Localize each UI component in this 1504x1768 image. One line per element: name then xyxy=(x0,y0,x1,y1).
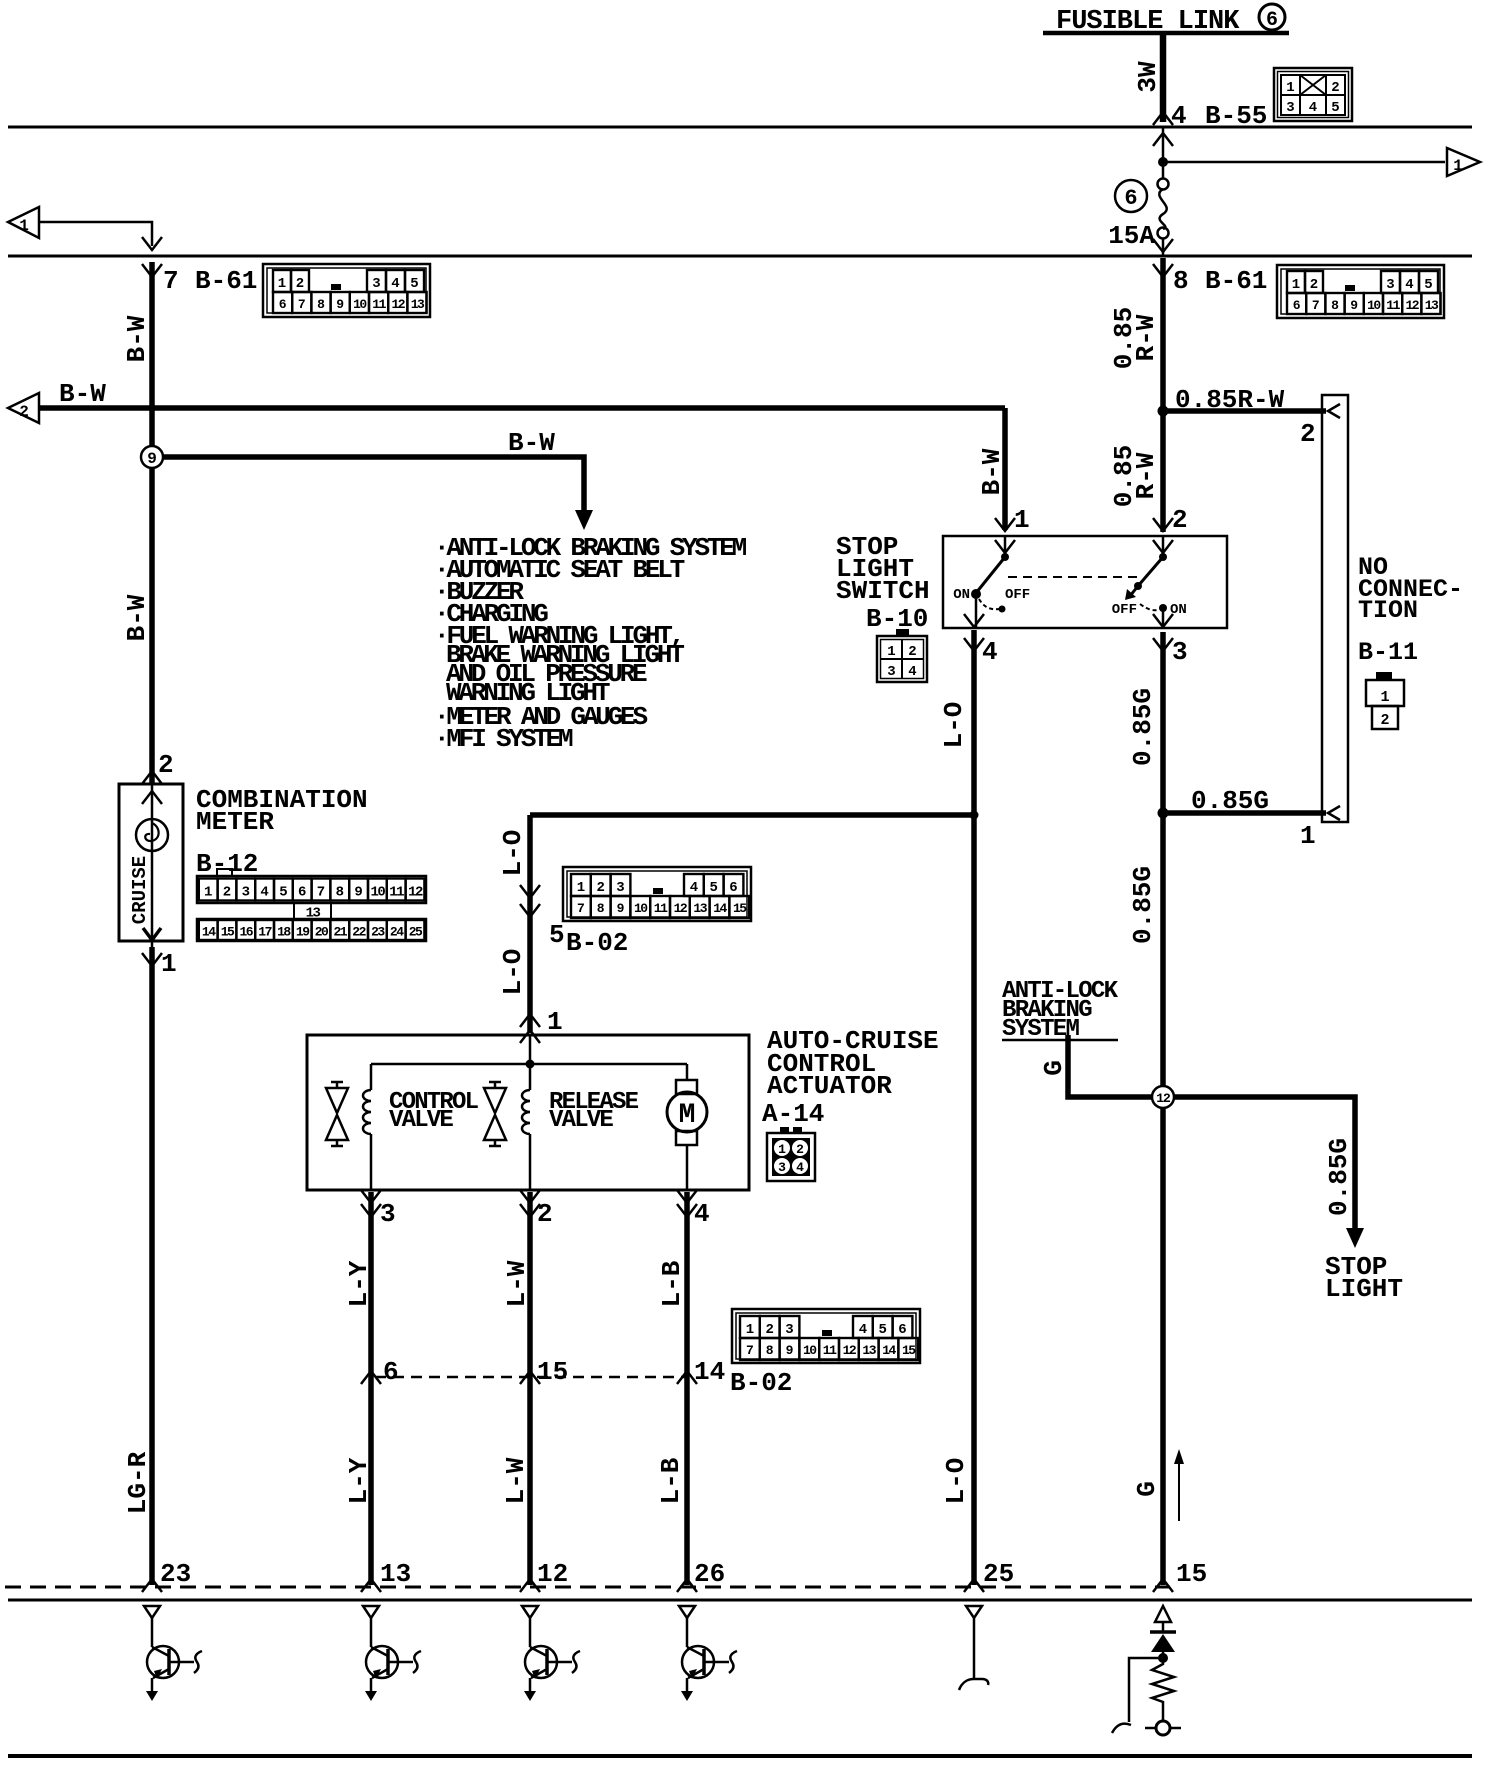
svg-text:A-14: A-14 xyxy=(762,1099,824,1129)
svg-text:14: 14 xyxy=(882,1343,896,1358)
svg-text:5: 5 xyxy=(410,276,418,292)
svg-text:2: 2 xyxy=(19,403,29,421)
svg-text:21: 21 xyxy=(333,925,347,940)
svg-text:·MFI SYSTEM: ·MFI SYSTEM xyxy=(434,724,573,754)
svg-text:8: 8 xyxy=(317,297,325,312)
svg-text:15: 15 xyxy=(902,1343,916,1358)
svg-text:7: 7 xyxy=(317,885,325,901)
svg-text:L-O: L-O xyxy=(941,1458,971,1505)
svg-text:4: 4 xyxy=(982,637,998,667)
svg-text:3: 3 xyxy=(1386,277,1394,293)
svg-text:B-W: B-W xyxy=(59,379,106,409)
svg-text:15: 15 xyxy=(1176,1559,1207,1589)
svg-text:15A: 15A xyxy=(1108,221,1155,251)
svg-text:3: 3 xyxy=(785,1322,793,1338)
svg-text:B-W: B-W xyxy=(122,594,152,641)
svg-text:2: 2 xyxy=(1300,419,1316,449)
svg-text:G: G xyxy=(1039,1060,1069,1076)
svg-text:CRUISE: CRUISE xyxy=(129,856,151,924)
svg-text:26: 26 xyxy=(694,1559,725,1589)
svg-text:20: 20 xyxy=(315,925,329,940)
svg-text:15: 15 xyxy=(733,901,747,916)
svg-text:4: 4 xyxy=(391,276,399,292)
svg-text:2: 2 xyxy=(1172,505,1188,535)
svg-text:1: 1 xyxy=(161,949,177,979)
svg-text:B-61: B-61 xyxy=(1205,266,1267,296)
svg-text:1: 1 xyxy=(1453,157,1463,175)
svg-text:11: 11 xyxy=(389,885,404,901)
svg-text:13: 13 xyxy=(693,901,707,916)
svg-text:12: 12 xyxy=(1405,298,1419,313)
svg-text:6: 6 xyxy=(898,1322,906,1338)
svg-text:3W: 3W xyxy=(1133,61,1163,93)
svg-text:L-O: L-O xyxy=(498,949,528,996)
svg-text:B-W: B-W xyxy=(977,448,1007,495)
svg-text:METER: METER xyxy=(196,807,274,837)
svg-text:6: 6 xyxy=(383,1357,399,1387)
svg-text:23: 23 xyxy=(160,1559,191,1589)
svg-text:1: 1 xyxy=(746,1322,754,1338)
svg-text:2: 2 xyxy=(1331,80,1339,96)
svg-text:0.85G: 0.85G xyxy=(1128,688,1158,766)
svg-text:3: 3 xyxy=(242,885,250,901)
svg-text:1: 1 xyxy=(577,880,585,896)
svg-text:TION: TION xyxy=(1358,596,1418,625)
svg-text:12: 12 xyxy=(843,1343,857,1358)
svg-text:G: G xyxy=(1132,1481,1162,1497)
svg-text:R-W: R-W xyxy=(1131,452,1161,499)
svg-text:15: 15 xyxy=(537,1357,568,1387)
svg-text:4: 4 xyxy=(1405,277,1413,293)
svg-text:0.85G: 0.85G xyxy=(1128,866,1158,944)
svg-text:8: 8 xyxy=(597,901,605,916)
svg-text:1: 1 xyxy=(19,217,29,235)
svg-text:1: 1 xyxy=(204,885,212,901)
svg-text:L-W: L-W xyxy=(501,1457,531,1504)
svg-text:2: 2 xyxy=(537,1199,553,1229)
svg-text:L-Y: L-Y xyxy=(344,1260,374,1307)
svg-text:15: 15 xyxy=(221,925,235,940)
svg-text:4: 4 xyxy=(908,664,916,680)
svg-text:11: 11 xyxy=(372,297,386,312)
svg-text:14: 14 xyxy=(202,925,216,940)
svg-text:7: 7 xyxy=(298,297,306,312)
svg-text:13: 13 xyxy=(1425,298,1439,313)
svg-text:LG-R: LG-R xyxy=(123,1451,153,1514)
svg-text:B-W: B-W xyxy=(508,428,555,458)
svg-text:0.85G: 0.85G xyxy=(1324,1138,1354,1216)
svg-text:12: 12 xyxy=(391,297,405,312)
svg-text:10: 10 xyxy=(634,901,648,916)
svg-text:5: 5 xyxy=(709,880,717,896)
svg-text:1: 1 xyxy=(1380,689,1389,706)
svg-text:B-W: B-W xyxy=(122,315,152,362)
svg-text:2: 2 xyxy=(1310,277,1318,293)
svg-text:10: 10 xyxy=(353,297,367,312)
svg-text:1: 1 xyxy=(278,276,286,292)
svg-text:1: 1 xyxy=(778,1142,786,1157)
svg-text:5: 5 xyxy=(279,885,287,901)
svg-text:8: 8 xyxy=(766,1343,774,1358)
svg-text:2: 2 xyxy=(596,880,604,896)
svg-text:22: 22 xyxy=(352,925,366,940)
svg-text:L-B: L-B xyxy=(656,1457,686,1504)
svg-text:1: 1 xyxy=(1014,505,1030,535)
svg-text:11: 11 xyxy=(654,901,668,916)
svg-text:B-11: B-11 xyxy=(1358,638,1418,667)
svg-text:0.85G: 0.85G xyxy=(1191,786,1269,816)
svg-text:B-12: B-12 xyxy=(196,849,258,879)
svg-text:12: 12 xyxy=(674,901,688,916)
svg-text:7: 7 xyxy=(746,1343,754,1358)
svg-text:10: 10 xyxy=(1367,298,1381,313)
svg-text:3: 3 xyxy=(778,1160,786,1175)
svg-text:L-Y: L-Y xyxy=(344,1457,374,1504)
svg-text:13: 13 xyxy=(380,1559,411,1589)
svg-text:3: 3 xyxy=(887,664,895,680)
svg-text:2: 2 xyxy=(765,1322,773,1338)
svg-text:B-61: B-61 xyxy=(195,266,257,296)
svg-text:2: 2 xyxy=(796,1142,804,1157)
svg-text:6: 6 xyxy=(1293,298,1301,313)
svg-text:L-B: L-B xyxy=(657,1260,687,1307)
svg-text:5: 5 xyxy=(1424,277,1432,293)
svg-text:6: 6 xyxy=(279,297,287,312)
svg-text:4: 4 xyxy=(260,885,268,901)
svg-text:7: 7 xyxy=(1312,298,1320,313)
svg-text:B-02: B-02 xyxy=(730,1368,792,1398)
svg-text:4: 4 xyxy=(859,1322,867,1338)
svg-text:1: 1 xyxy=(887,644,895,660)
svg-text:11: 11 xyxy=(1386,298,1400,313)
svg-text:L-W: L-W xyxy=(502,1260,532,1307)
svg-text:24: 24 xyxy=(390,925,404,940)
svg-text:6: 6 xyxy=(298,885,306,901)
svg-text:12: 12 xyxy=(537,1559,568,1589)
svg-text:5: 5 xyxy=(1331,100,1339,116)
svg-text:11: 11 xyxy=(823,1343,837,1358)
svg-text:7: 7 xyxy=(577,901,585,916)
svg-text:OFF: OFF xyxy=(1005,587,1030,603)
svg-text:6: 6 xyxy=(1124,186,1137,211)
svg-text:10: 10 xyxy=(803,1343,817,1358)
svg-text:4: 4 xyxy=(1309,100,1317,116)
svg-text:8: 8 xyxy=(1173,266,1189,296)
svg-text:23: 23 xyxy=(371,925,385,940)
svg-text:2: 2 xyxy=(1380,712,1389,729)
svg-text:7: 7 xyxy=(163,266,179,296)
svg-text:5: 5 xyxy=(549,920,565,950)
svg-text:18: 18 xyxy=(277,925,291,940)
svg-text:SWITCH: SWITCH xyxy=(836,576,930,606)
svg-text:4: 4 xyxy=(690,880,698,896)
svg-text:9: 9 xyxy=(147,450,157,468)
svg-text:R-W: R-W xyxy=(1131,314,1161,361)
svg-text:9: 9 xyxy=(336,297,344,312)
svg-text:OFF: OFF xyxy=(1112,602,1137,618)
svg-text:8: 8 xyxy=(336,885,344,901)
svg-text:1: 1 xyxy=(1286,80,1294,96)
svg-text:5: 5 xyxy=(878,1322,886,1338)
svg-text:1: 1 xyxy=(1292,277,1300,293)
svg-text:13: 13 xyxy=(411,297,425,312)
svg-text:VALVE: VALVE xyxy=(549,1107,613,1134)
svg-text:19: 19 xyxy=(296,925,310,940)
svg-text:25: 25 xyxy=(983,1559,1014,1589)
svg-text:1: 1 xyxy=(1300,821,1316,851)
svg-text:9: 9 xyxy=(617,901,625,916)
svg-text:10: 10 xyxy=(370,885,385,901)
svg-text:9: 9 xyxy=(1350,298,1358,313)
svg-text:ON: ON xyxy=(953,587,970,603)
svg-text:9: 9 xyxy=(354,885,362,901)
svg-text:3: 3 xyxy=(1286,100,1294,116)
svg-text:4: 4 xyxy=(1171,101,1187,131)
svg-text:4: 4 xyxy=(694,1199,710,1229)
svg-text:2: 2 xyxy=(296,276,304,292)
svg-text:6: 6 xyxy=(729,880,737,896)
svg-text:M: M xyxy=(679,1100,696,1131)
svg-text:14: 14 xyxy=(694,1357,725,1387)
svg-text:3: 3 xyxy=(616,880,624,896)
svg-text:LIGHT: LIGHT xyxy=(1325,1274,1403,1304)
svg-text:12: 12 xyxy=(408,885,423,901)
svg-text:L-O: L-O xyxy=(939,702,969,749)
svg-text:ON: ON xyxy=(1170,602,1187,618)
svg-text:2: 2 xyxy=(908,644,916,660)
svg-text:2: 2 xyxy=(158,750,174,780)
svg-text:3: 3 xyxy=(380,1199,396,1229)
svg-text:4: 4 xyxy=(796,1160,804,1175)
svg-text:8: 8 xyxy=(1331,298,1339,313)
svg-text:16: 16 xyxy=(239,925,253,940)
svg-text:12: 12 xyxy=(1156,1091,1171,1106)
svg-text:9: 9 xyxy=(786,1343,794,1358)
svg-text:3: 3 xyxy=(1172,637,1188,667)
svg-text:B-02: B-02 xyxy=(566,928,628,958)
svg-text:0.85R-W: 0.85R-W xyxy=(1175,385,1285,415)
svg-text:VALVE: VALVE xyxy=(389,1107,453,1134)
svg-text:6: 6 xyxy=(1266,9,1278,32)
svg-text:17: 17 xyxy=(258,925,271,940)
svg-text:ACTUATOR: ACTUATOR xyxy=(767,1071,892,1101)
svg-text:B-55: B-55 xyxy=(1205,101,1267,131)
svg-text:3: 3 xyxy=(372,276,380,292)
svg-text:25: 25 xyxy=(409,925,423,940)
svg-text:13: 13 xyxy=(862,1343,876,1358)
svg-text:2: 2 xyxy=(223,885,231,901)
svg-text:L-O: L-O xyxy=(498,830,528,877)
svg-text:1: 1 xyxy=(547,1007,563,1037)
svg-text:14: 14 xyxy=(713,901,727,916)
